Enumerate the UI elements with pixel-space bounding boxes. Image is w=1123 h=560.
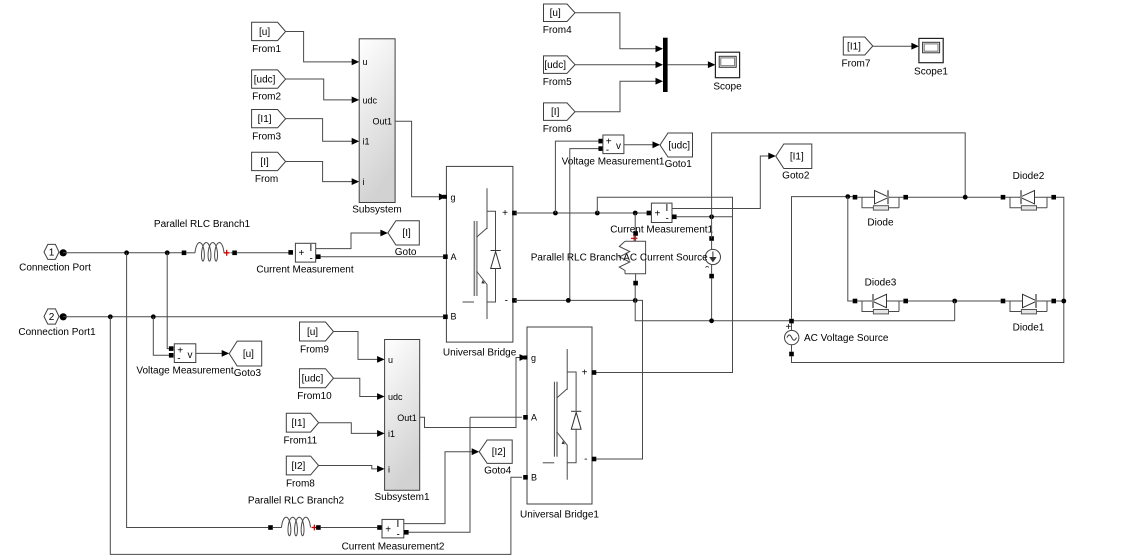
wire Current Measurement1 I to Goto2 [672, 156, 773, 209]
svg-text:-: - [177, 354, 180, 365]
diode Diode1 [1001, 294, 1056, 334]
wire + bus loop to Universal Bridge1 + [595, 197, 733, 372]
svg-text:[I2]: [I2] [492, 447, 506, 458]
wire Diode to Diode2 [908, 196, 1001, 198]
junction on port1 wire at x=167 [165, 250, 170, 255]
junction at x=555 on + bus [553, 211, 558, 216]
voltage measurement block Voltage Measurement [136, 344, 234, 377]
wire Voltage Measurement1 - down to - bus [570, 149, 599, 301]
wire From11 to Subsystem1 i1 [319, 423, 382, 434]
svg-text:[udc]: [udc] [302, 374, 324, 385]
svg-text:+: + [299, 248, 305, 259]
svg-text:-: - [606, 145, 609, 156]
wire Subsystem1 Out1 to Universal Bridge1 g [420, 358, 525, 428]
svg-text:Connection Port: Connection Port [19, 263, 91, 274]
arrowhead mux in3 [656, 78, 664, 85]
svg-text:From9: From9 [300, 345, 329, 356]
svg-text:Current Measurement1: Current Measurement1 [610, 225, 713, 236]
wire Diode1 right to right bus [1056, 300, 1064, 302]
svg-text:[udc]: [udc] [668, 140, 690, 151]
scope Scope1 [914, 38, 948, 77]
AC voltage source AC Voltage Source [785, 319, 889, 357]
wire Diode3 to Diode1 [908, 300, 1001, 302]
wire From to Subsystem i [286, 162, 357, 182]
svg-text:Subsystem1: Subsystem1 [374, 492, 429, 503]
wire Voltage Measurement v to Goto3 [196, 352, 227, 354]
wire Voltage Measurement1 v to Goto1 [624, 144, 657, 146]
wire port1 junction down to Parallel RLC Branch2 [127, 253, 269, 528]
svg-text:I: I [666, 203, 669, 214]
svg-text:Voltage Measurement1: Voltage Measurement1 [562, 157, 665, 168]
svg-text:Goto2: Goto2 [782, 171, 810, 182]
current measurement block Current Measurement1 [610, 203, 713, 236]
red polarity mark on RLC Branch [631, 235, 637, 241]
svg-text:-: - [666, 214, 669, 225]
svg-text:i: i [363, 177, 365, 187]
svg-text:A: A [451, 252, 457, 262]
svg-text:I: I [397, 519, 400, 530]
junction top bus into diode row1 [963, 195, 968, 200]
svg-text:From3: From3 [252, 131, 281, 142]
mux Mux [663, 38, 668, 92]
svg-text:i: i [388, 464, 390, 474]
junction at x=597 on + bus [595, 211, 600, 216]
svg-text:v: v [616, 141, 621, 152]
junction AC Current Source bottom [709, 318, 714, 323]
junction on port2 wire at x=153 [151, 314, 156, 319]
arrowhead into Goto3 [222, 350, 230, 357]
svg-text:[u]: [u] [307, 327, 318, 338]
svg-text:Voltage Measurement: Voltage Measurement [136, 366, 234, 377]
subsystem Subsystem [352, 39, 401, 216]
wire port2 junction down to Voltage Measurement - [153, 317, 169, 356]
inductor Parallel RLC Branch1 [154, 219, 251, 261]
arrowhead into i1 [352, 138, 360, 145]
svg-text:Scope1: Scope1 [914, 67, 948, 78]
wire diode row1 left down to Diode3 [848, 197, 855, 301]
wire RLC Branch bottom to AC node bus [635, 285, 955, 320]
current measurement block Current Measurement [256, 243, 353, 276]
wire From8 to Subsystem1 i [319, 466, 382, 469]
arrowhead into UB1 g [520, 354, 528, 361]
arrowhead mux in1 [656, 45, 664, 52]
wire + bus to RLC Branch top [634, 213, 636, 231]
svg-text:Out1: Out1 [397, 413, 417, 423]
Goto block Goto [388, 221, 419, 258]
From block From10 [297, 369, 333, 403]
diode Diode3 [853, 278, 908, 314]
arrowhead into udc [352, 97, 360, 104]
wire From3 to Subsystem i1 [286, 119, 357, 142]
wire Universal Bridge1 A node down to Current Measurement2 - [409, 417, 471, 532]
svg-text:Current Measurement: Current Measurement [256, 265, 353, 276]
svg-text:+: + [582, 368, 588, 379]
wire Connection Port1 to Universal Bridge B [63, 316, 443, 318]
Goto block Goto2 [776, 144, 812, 182]
wire Diode2 right down right bus [1056, 197, 1064, 301]
arrowhead into u [352, 59, 360, 66]
svg-text:From1: From1 [252, 44, 281, 55]
svg-text:Diode: Diode [867, 218, 894, 229]
svg-text:From2: From2 [252, 92, 281, 103]
svg-text:Diode1: Diode1 [1013, 323, 1045, 334]
Goto block Goto3 [229, 341, 262, 379]
svg-text:Diode2: Diode2 [1013, 171, 1045, 182]
svg-text:Parallel RLC Branch1: Parallel RLC Branch1 [154, 219, 251, 230]
svg-text:u: u [363, 57, 368, 67]
wire AC Current Source bottom to AC bus [711, 278, 713, 318]
junction on port1 wire at x=127 [124, 250, 129, 255]
svg-text:Out1: Out1 [372, 116, 392, 126]
From block From9 [300, 322, 334, 356]
svg-text:Universal Bridge: Universal Bridge [443, 348, 517, 359]
wire node to Universal Bridge1 A [470, 416, 522, 418]
svg-text:From10: From10 [297, 391, 332, 402]
From block From1 [252, 22, 286, 55]
red polarity mark on RLC Branch2 [312, 525, 318, 531]
From block From11 [284, 413, 319, 446]
arrowhead into S1 u [377, 356, 385, 363]
svg-text:i1: i1 [388, 429, 395, 439]
Goto block Goto4 [479, 440, 512, 476]
svg-text:Goto1: Goto1 [665, 159, 693, 170]
connection port 1 [19, 244, 91, 273]
svg-text:2: 2 [49, 312, 55, 323]
arrowhead into i [352, 178, 360, 185]
wire Connection Port to Parallel RLC Branch1 [63, 252, 184, 254]
svg-text:From4: From4 [543, 25, 572, 36]
junction VM1- on - bus [566, 298, 571, 303]
svg-text:g: g [451, 192, 456, 202]
svg-text:AC Current Source: AC Current Source [623, 253, 708, 264]
svg-text:Universal Bridge1: Universal Bridge1 [520, 510, 599, 521]
wire Current Measurement1 - to node [677, 216, 733, 218]
AC current source AC Current Source [623, 236, 720, 278]
From block From8 [286, 456, 319, 489]
arrowhead into Goto2 [768, 153, 776, 160]
From block From4 [543, 4, 575, 36]
current measurement block Current Measurement2 [342, 519, 445, 553]
voltage measurement block Voltage Measurement1 [562, 135, 665, 168]
From block From2 [252, 70, 286, 103]
svg-text:From7: From7 [842, 59, 871, 70]
svg-text:[I]: [I] [551, 107, 560, 118]
arrowhead into S1 i1 [377, 430, 385, 437]
junction diode row1 left [845, 194, 850, 199]
inductor Parallel RLC Branch2 [248, 496, 345, 536]
svg-text:From6: From6 [543, 124, 572, 135]
svg-text:[udc]: [udc] [254, 75, 276, 86]
svg-text:B: B [531, 473, 537, 483]
wire + bus up to Voltage Measurement1 + [555, 141, 598, 213]
resistor branch Parallel RLC Branch [531, 231, 646, 285]
svg-text:[I1]: [I1] [790, 152, 804, 163]
svg-text:1: 1 [49, 248, 55, 259]
svg-text:Subsystem: Subsystem [352, 205, 401, 216]
svg-text:A: A [531, 413, 537, 423]
From block From3 [252, 110, 286, 143]
wire From10 to Subsystem1 udc [334, 378, 383, 396]
junction diode row2 to AC bus [952, 299, 957, 304]
From block From7 [842, 37, 873, 70]
svg-text:-: - [397, 530, 400, 541]
svg-text:From5: From5 [543, 77, 572, 88]
wire From4 to Mux in1 [575, 13, 661, 49]
svg-text:AC Voltage Source: AC Voltage Source [804, 333, 889, 344]
wire Current Measurement I to Goto [316, 233, 385, 249]
wire AC Voltage Source - along bottom to right bus [792, 301, 1064, 363]
wire From9 to Subsystem1 u [334, 332, 383, 360]
svg-text:Goto4: Goto4 [484, 465, 512, 476]
svg-text:[u]: [u] [259, 27, 270, 38]
subsystem Subsystem1 [374, 340, 429, 504]
svg-text:Parallel RLC Branch: Parallel RLC Branch [531, 253, 622, 264]
svg-text:Parallel RLC Branch2: Parallel RLC Branch2 [248, 496, 345, 507]
svg-text:Scope: Scope [713, 82, 742, 93]
svg-text:g: g [531, 353, 536, 363]
svg-text:[u]: [u] [243, 349, 254, 360]
svg-text:[I1]: [I1] [258, 114, 272, 125]
wire port1 junction down to Voltage Measurement + [167, 253, 169, 349]
svg-text:u: u [388, 355, 393, 365]
arrowhead mux in2 [656, 61, 664, 68]
svg-text:udc: udc [388, 392, 403, 402]
Goto block Goto1 [660, 133, 693, 170]
wire RLC Branch1 to Current Measurement [237, 252, 289, 254]
wire AC Current Source top up and over to diode row1 [712, 133, 966, 239]
arrowhead into S1 udc [377, 393, 385, 400]
From block From5 [543, 56, 575, 88]
arrowhead into Goto4 [472, 448, 480, 455]
svg-text:[u]: [u] [550, 8, 561, 19]
svg-text:+: + [502, 208, 508, 219]
scope Scope [713, 52, 742, 92]
wire port2 junction down along bottom to Universal Bridge1 B [110, 317, 522, 555]
svg-text:From: From [255, 174, 278, 185]
wire Universal Bridge + to Current Measurement1 + [515, 212, 647, 214]
wire From6 to Mux in3 [575, 81, 661, 112]
wire AC Voltage Source + up to diode row1 [792, 197, 856, 319]
arrowhead into S1 i [377, 466, 385, 473]
svg-text:udc: udc [363, 95, 378, 105]
svg-text:[I]: [I] [402, 228, 411, 239]
junction CM1- and AC Current Source vertical [709, 214, 714, 219]
arrowhead into g [439, 193, 447, 200]
From block From6 [543, 103, 575, 135]
svg-text:+: + [655, 209, 661, 220]
From block From [252, 152, 286, 185]
diode Diode [853, 190, 908, 228]
svg-text:Current Measurement2: Current Measurement2 [342, 542, 445, 553]
junction right bus at Diode1 [1061, 299, 1066, 304]
arrowhead into Goto [380, 230, 388, 237]
junction RLC Branch top on + bus [633, 211, 638, 216]
svg-text:v: v [188, 350, 193, 361]
wire From5 to Mux in2 [575, 64, 661, 66]
svg-text:-: - [505, 296, 508, 307]
svg-text:Goto3: Goto3 [234, 368, 262, 379]
svg-text:+: + [385, 524, 391, 535]
wire Universal Bridge - to Universal Bridge1 - [515, 300, 643, 459]
svg-text:Connection Port1: Connection Port1 [18, 327, 96, 338]
svg-text:[I1]: [I1] [847, 41, 861, 52]
svg-text:i1: i1 [363, 137, 370, 147]
diode Diode2 [1001, 171, 1056, 210]
wire Current Measurement - to Universal Bridge A [321, 256, 443, 258]
svg-text:-: - [310, 254, 313, 265]
wire Subsystem Out1 to Universal Bridge g [395, 121, 444, 197]
connection port 2 [18, 309, 96, 338]
svg-text:Diode3: Diode3 [865, 278, 897, 289]
universal bridge Universal Bridge1 [520, 327, 599, 521]
wire From1 to Subsystem u [286, 32, 357, 62]
arrowhead into Scope [708, 61, 716, 68]
wire diode row2 down to AC bus [954, 301, 956, 321]
wire From7 to Scope1 [873, 45, 916, 47]
svg-text:[I1]: [I1] [291, 418, 305, 429]
svg-text:From11: From11 [284, 436, 318, 447]
arrowhead into Goto1 [653, 141, 661, 148]
junction RLC bottom on - bus [633, 298, 638, 303]
universal bridge Universal Bridge [443, 166, 517, 358]
wire Current Measurement2 I to Goto4 [404, 452, 477, 524]
svg-text:[I]: [I] [260, 157, 269, 168]
wire From2 to Subsystem udc [286, 79, 357, 100]
junction on port2 wire at x=110 [108, 314, 113, 319]
svg-text:From8: From8 [286, 478, 315, 489]
arrowhead into Scope1 [911, 43, 919, 50]
wire RLC Branch2 to Current Measurement2 + [321, 527, 377, 529]
red polarity mark on RLC Branch1 [224, 250, 230, 256]
wire Mux to Scope [668, 64, 713, 66]
svg-text:[I2]: [I2] [291, 461, 305, 472]
svg-text:[udc]: [udc] [544, 60, 566, 71]
svg-text:-: - [584, 454, 587, 465]
svg-text:B: B [451, 312, 457, 322]
svg-text:I: I [310, 243, 313, 254]
